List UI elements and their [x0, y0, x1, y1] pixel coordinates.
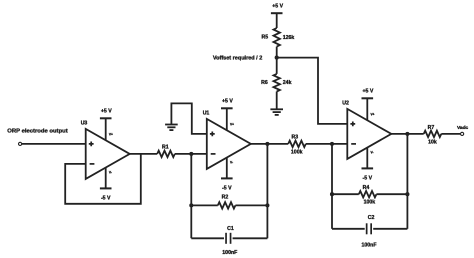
resistor R5 [274, 28, 280, 47]
svg-text:-5 V: -5 V [222, 185, 232, 191]
svg-text:+5 V: +5 V [272, 3, 283, 9]
capacitor C1 [225, 233, 227, 244]
svg-text:ORP electrode output: ORP electrode output [7, 129, 67, 135]
svg-text:V+: V+ [371, 112, 375, 116]
output terminal Vadc [461, 132, 464, 135]
wire C1 row right [233, 237, 268, 239]
capacitor C2 [366, 223, 368, 234]
svg-text:R6: R6 [261, 80, 268, 86]
svg-text:V+: V+ [230, 122, 234, 126]
op-amp U2 [347, 109, 391, 159]
svg-text:+5 V: +5 V [101, 109, 112, 115]
svg-text:Voffset required / 2: Voffset required / 2 [213, 56, 262, 62]
U3 -5V supply bar [100, 187, 112, 189]
U3 V+ pin [105, 118, 107, 140]
U2 +5V supply bar [362, 97, 374, 99]
wire R1 to U1 - input [175, 153, 207, 155]
svg-text:V-: V- [230, 161, 233, 165]
wire U1 output [251, 143, 288, 145]
svg-text:V-: V- [109, 171, 112, 175]
op-amp U3 [86, 129, 130, 179]
wire U2 output [391, 133, 423, 135]
wire feedback right vertical (to U1 output) [266, 144, 268, 238]
U1 +5V supply bar [221, 107, 233, 109]
wire C1 row left [191, 237, 224, 239]
U3 V- pin [105, 168, 107, 189]
resistor R3 [288, 141, 306, 147]
wire C2 row right [373, 228, 407, 230]
wire feedback left vertical (node B down) [331, 144, 333, 229]
resistor R4 [359, 191, 377, 197]
junction R4 left [330, 192, 334, 196]
svg-text:C1: C1 [227, 226, 234, 232]
svg-text:R5: R5 [262, 34, 269, 40]
wire R7 to Vadc [441, 133, 460, 135]
wire U1 + input to ground [171, 103, 206, 133]
resistor R1 [157, 151, 175, 157]
junction node A (R1 / U1- / feedback) [189, 152, 193, 156]
wire R4 row [332, 193, 359, 195]
junction R2 right [265, 203, 269, 207]
U1 -5V supply bar [221, 177, 233, 179]
resistor R2 [218, 202, 236, 208]
svg-text:100k: 100k [364, 200, 376, 206]
svg-text:100nF: 100nF [222, 250, 237, 256]
U1 V+ pin [226, 108, 228, 130]
svg-text:10k: 10k [428, 139, 437, 145]
wire C2 row left [332, 228, 365, 230]
+5V supply bar (divider) [271, 12, 283, 14]
wire feedback left vertical (node A down) [190, 154, 192, 238]
U2 V- pin [366, 148, 368, 169]
resistor R7 [424, 131, 442, 137]
ground (U1 + input) [165, 124, 178, 126]
svg-text:U1: U1 [203, 110, 210, 116]
wire R6 to ground [276, 92, 278, 110]
junction R2 left [189, 203, 193, 207]
svg-text:R3: R3 [291, 135, 298, 141]
wire R2 row [191, 204, 218, 206]
svg-text:+5 V: +5 V [362, 89, 373, 95]
svg-text:100k: 100k [291, 150, 303, 156]
svg-text:C2: C2 [368, 215, 375, 221]
input terminal ORP electrode output [19, 142, 22, 145]
junction U2 output / feedback [405, 132, 409, 136]
junction node Voffset [275, 56, 279, 60]
svg-text:R2: R2 [222, 195, 229, 201]
junction node B (R3 / U2- / feedback) [330, 142, 334, 146]
svg-text:24k: 24k [283, 80, 292, 86]
U2 -5V supply bar [362, 167, 374, 169]
svg-text:R4: R4 [363, 185, 370, 191]
svg-text:R1: R1 [162, 144, 169, 150]
svg-text:+5 V: +5 V [222, 99, 233, 105]
svg-text:V-: V- [371, 151, 374, 155]
wire R3 to U2 - input [306, 143, 348, 145]
junction U1 output / feedback [265, 142, 269, 146]
svg-text:U2: U2 [342, 100, 349, 106]
U1 V- pin [226, 158, 228, 179]
op-amp U1 [207, 119, 251, 169]
wire input to U3 + [22, 143, 86, 145]
svg-text:V+: V+ [109, 132, 113, 136]
svg-text:R7: R7 [428, 125, 435, 131]
svg-text:U3: U3 [81, 120, 88, 126]
svg-text:100nF: 100nF [362, 243, 377, 249]
resistor R6 [274, 74, 280, 92]
wire node to U2 + input [277, 58, 348, 124]
U2 V+ pin [366, 98, 368, 120]
junction R4 right [405, 192, 409, 196]
svg-text:-5 V: -5 V [363, 175, 373, 181]
wire R5 to node [276, 47, 278, 74]
wire feedback right vertical (to U2 output) [406, 134, 408, 229]
wire U3 output [130, 153, 158, 155]
svg-text:126k: 126k [283, 35, 295, 41]
svg-text:-5 V: -5 V [101, 195, 111, 201]
svg-text:Vadc: Vadc [457, 125, 469, 131]
ground (divider) [270, 108, 283, 110]
wire U3 feedback loop (output to - input) [65, 154, 141, 204]
wire +5V to R5 [276, 13, 278, 28]
U3 +5V supply bar [100, 117, 112, 119]
